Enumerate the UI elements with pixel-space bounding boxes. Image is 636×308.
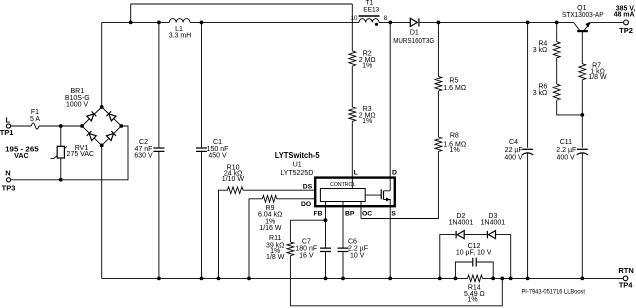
svg-text:400 V: 400 V [556, 155, 575, 162]
svg-text:TP2: TP2 [619, 26, 633, 35]
svg-text:STX13003-AP: STX13003-AP [562, 12, 604, 19]
svg-text:FB: FB [314, 211, 323, 218]
svg-text:F1: F1 [31, 109, 39, 116]
svg-text:10 µF, 10 V: 10 µF, 10 V [456, 249, 492, 256]
svg-text:1.6 MΩ: 1.6 MΩ [443, 85, 466, 92]
svg-text:2.2 µF: 2.2 µF [556, 147, 576, 154]
svg-text:LYTSwitch-5: LYTSwitch-5 [275, 151, 320, 160]
svg-text:N: N [5, 168, 10, 177]
svg-text:1/10 W: 1/10 W [222, 176, 245, 183]
svg-text:R8: R8 [450, 133, 459, 140]
svg-text:1%: 1% [362, 118, 372, 125]
svg-text:1N4001: 1N4001 [481, 219, 506, 226]
svg-text:TP3: TP3 [2, 183, 16, 192]
svg-text:RTN: RTN [618, 266, 633, 275]
svg-text:PI-7943-051716 LLBoost: PI-7943-051716 LLBoost [522, 290, 586, 296]
svg-text:630 V: 630 V [134, 153, 153, 160]
svg-text:C6: C6 [348, 238, 357, 245]
svg-text:S: S [391, 211, 396, 218]
svg-text:10: 10 [351, 15, 358, 22]
svg-text:3 kΩ: 3 kΩ [533, 47, 548, 54]
svg-text:6.04 kΩ: 6.04 kΩ [258, 212, 282, 219]
svg-text:R11: R11 [269, 235, 281, 242]
svg-text:D: D [392, 169, 397, 176]
svg-text:R5: R5 [449, 78, 458, 85]
svg-text:1/8 W: 1/8 W [588, 74, 607, 81]
svg-text:TP1: TP1 [0, 128, 13, 137]
svg-text:C7: C7 [302, 238, 311, 245]
svg-text:MURS160T3G: MURS160T3G [393, 38, 434, 45]
svg-text:5 A: 5 A [30, 116, 40, 123]
svg-text:VAC: VAC [14, 151, 29, 160]
svg-text:L: L [6, 116, 11, 125]
svg-text:16 V: 16 V [299, 252, 314, 259]
svg-text:TP4: TP4 [619, 281, 634, 290]
svg-text:400 V: 400 V [504, 155, 523, 162]
svg-text:3.3 mH: 3.3 mH [169, 32, 192, 39]
svg-text:275 VAC: 275 VAC [67, 151, 95, 158]
svg-text:1%: 1% [362, 63, 372, 70]
svg-text:C4: C4 [509, 139, 518, 146]
svg-text:1N4001: 1N4001 [449, 219, 474, 226]
svg-text:450 V: 450 V [208, 153, 227, 160]
svg-text:1%: 1% [467, 297, 477, 304]
svg-text:L: L [354, 169, 358, 176]
svg-text:8: 8 [384, 15, 388, 22]
svg-text:22 µF: 22 µF [505, 147, 523, 154]
svg-text:LYT5225D: LYT5225D [280, 170, 313, 177]
svg-text:48 mA: 48 mA [614, 12, 635, 19]
svg-text:OC: OC [362, 211, 372, 218]
svg-text:1/8 W: 1/8 W [266, 254, 285, 261]
svg-text:1%: 1% [450, 147, 460, 154]
svg-text:C11: C11 [560, 139, 572, 146]
svg-text:DS: DS [303, 184, 313, 191]
svg-text:D1: D1 [410, 29, 419, 36]
svg-text:CONTROL: CONTROL [330, 182, 355, 188]
svg-text:3 kΩ: 3 kΩ [533, 90, 548, 97]
svg-text:U1: U1 [293, 161, 302, 168]
svg-text:1/16 W: 1/16 W [259, 225, 282, 232]
svg-text:BP: BP [345, 210, 355, 217]
svg-text:EE13: EE13 [363, 7, 379, 14]
svg-text:DO: DO [301, 201, 311, 208]
svg-text:10 V: 10 V [350, 252, 365, 259]
svg-text:1000 V: 1000 V [66, 102, 89, 109]
